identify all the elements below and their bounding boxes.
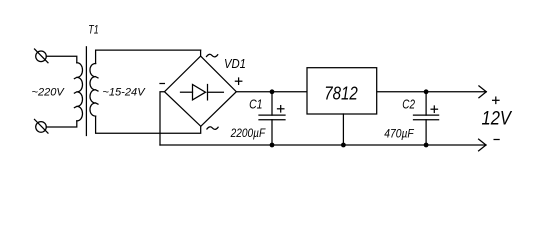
svg-text:~15-24V: ~15-24V: [102, 87, 146, 99]
svg-text:2200µF: 2200µF: [230, 128, 266, 140]
svg-text:T1: T1: [88, 23, 98, 37]
svg-text:12V: 12V: [482, 108, 513, 130]
svg-text:7812: 7812: [324, 83, 358, 103]
svg-text:C1: C1: [249, 96, 262, 111]
svg-text:~220V: ~220V: [32, 87, 66, 99]
svg-text:VD1: VD1: [224, 57, 246, 71]
svg-text:C2: C2: [402, 96, 415, 111]
svg-text:470µF: 470µF: [384, 128, 414, 140]
